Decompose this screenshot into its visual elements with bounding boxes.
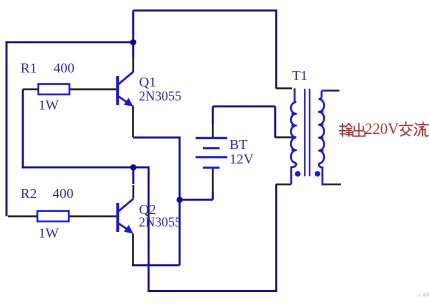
phase dot left bbox=[295, 171, 301, 177]
wire Q1 emitter rail bbox=[133, 137, 180, 139]
battery BT bbox=[196, 138, 228, 168]
pin R2 right lead to Q2 base bbox=[69, 215, 117, 217]
svg-text:1W: 1W bbox=[39, 226, 60, 241]
wire top rail bbox=[133, 10, 276, 12]
pin secondary bottom lead bbox=[324, 183, 341, 185]
wire top-right drop to transformer bbox=[275, 10, 277, 89]
wire Q2 collector stub bbox=[132, 167, 134, 184]
wire battery top to tap bbox=[213, 106, 275, 137]
winding joint nubs bbox=[292, 112, 323, 151]
pin transformer primary top bbox=[276, 87, 292, 89]
pin transformer primary bottom bbox=[276, 183, 291, 185]
pin R2 left lead bbox=[8, 215, 37, 217]
transformer T1 primary winding bbox=[291, 88, 296, 184]
pin R1 right lead to Q1 base bbox=[69, 88, 116, 90]
wire mid vertical bbox=[179, 137, 181, 266]
junction dot C (emitter/battery) bbox=[177, 197, 183, 203]
junction dot A (Q1 collector) bbox=[130, 39, 136, 45]
svg-text:2N3055: 2N3055 bbox=[139, 216, 182, 231]
bottom-right gray artifact bbox=[418, 293, 429, 297]
pin battery bottom bbox=[212, 168, 214, 193]
char shu 输 bbox=[339, 124, 352, 137]
wire R1-left vertical bbox=[22, 89, 24, 167]
wire battery bottom bbox=[180, 192, 213, 200]
svg-text:400: 400 bbox=[54, 61, 75, 76]
transistor Q2 bbox=[118, 199, 134, 234]
char liu 流 bbox=[414, 122, 428, 136]
svg-text:R1: R1 bbox=[21, 61, 37, 76]
svg-text:220V: 220V bbox=[365, 121, 399, 138]
transformer T1 secondary winding bbox=[319, 91, 329, 185]
pin Q1 emitter bbox=[132, 106, 134, 138]
svg-text:400: 400 bbox=[53, 187, 74, 202]
svg-text:1W: 1W bbox=[39, 99, 60, 114]
pin R1 left lead bbox=[23, 88, 39, 90]
pin secondary top lead bbox=[328, 90, 339, 92]
pin Q2 emitter bbox=[132, 234, 134, 265]
svg-text:BT: BT bbox=[230, 138, 248, 153]
phase dot right bbox=[315, 171, 321, 177]
wire collector Q1 riser bbox=[132, 11, 134, 58]
svg-text:T1: T1 bbox=[292, 69, 308, 84]
svg-text:2N3055: 2N3055 bbox=[139, 89, 182, 104]
transistor Q1 bbox=[118, 72, 134, 107]
char chu 出 bbox=[353, 123, 365, 136]
resistor R2 bbox=[37, 211, 68, 221]
pin Q1 collector bbox=[132, 57, 134, 72]
svg-text:12V: 12V bbox=[230, 153, 254, 168]
wire Q2 emitter rail bbox=[132, 264, 180, 266]
resistor R1 bbox=[38, 84, 69, 94]
pin Q2 collector bbox=[132, 185, 134, 199]
junction dot B (Q2 collector) bbox=[130, 164, 136, 170]
pin transformer center tap bbox=[275, 136, 295, 138]
char jiao 交 bbox=[399, 122, 412, 136]
wire to Q2 collector junction bbox=[22, 166, 149, 168]
wire far-left vertical bbox=[6, 41, 8, 216]
wire bottom loop bbox=[148, 166, 277, 292]
svg-text:R2: R2 bbox=[21, 187, 37, 202]
wire left feedback top horizontal bbox=[7, 41, 134, 43]
transformer core bbox=[305, 89, 310, 177]
label output 220V AC (red) bbox=[339, 122, 428, 136]
pin battery top bbox=[212, 123, 214, 138]
